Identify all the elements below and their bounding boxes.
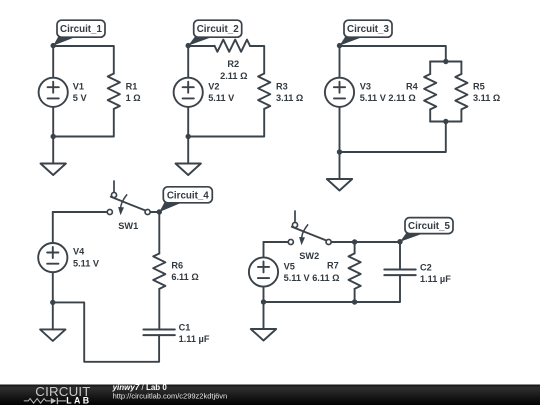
svg-text:5.11 V 2.11 Ω: 5.11 V 2.11 Ω (360, 93, 416, 103)
svg-text:2.11 Ω: 2.11 Ω (220, 71, 247, 81)
svg-text:Circuit_5: Circuit_5 (408, 221, 450, 232)
svg-text:R3: R3 (276, 82, 288, 92)
svg-text:Circuit_3: Circuit_3 (347, 24, 389, 35)
svg-text:http://circuitlab.com/c299z2kd: http://circuitlab.com/c299z2kdtj6vn (113, 391, 228, 400)
svg-text:1 Ω: 1 Ω (126, 93, 141, 103)
svg-text:SW2: SW2 (299, 251, 319, 261)
svg-text:5.11 V 6.11 Ω: 5.11 V 6.11 Ω (284, 273, 340, 283)
svg-text:V3: V3 (360, 82, 371, 92)
svg-text:Circuit_1: Circuit_1 (60, 24, 102, 35)
svg-text:R6: R6 (171, 260, 183, 270)
svg-text:R7: R7 (327, 260, 339, 270)
svg-text:V2: V2 (208, 82, 219, 92)
svg-text:1.11 µF: 1.11 µF (420, 274, 451, 284)
svg-text:3.11 Ω: 3.11 Ω (473, 93, 500, 103)
svg-text:1.11 µF: 1.11 µF (179, 334, 210, 344)
svg-text:R1: R1 (126, 82, 138, 92)
svg-text:V4: V4 (73, 247, 85, 257)
svg-text:SW1: SW1 (118, 221, 138, 231)
svg-text:C1: C1 (179, 323, 191, 333)
svg-text:LAB: LAB (66, 396, 91, 405)
svg-text:R2: R2 (227, 59, 239, 69)
svg-text:V1: V1 (73, 82, 84, 92)
svg-text:Circuit_4: Circuit_4 (167, 190, 209, 201)
svg-text:5.11 V: 5.11 V (208, 93, 235, 103)
svg-text:3.11 Ω: 3.11 Ω (276, 93, 303, 103)
svg-text:R5: R5 (473, 82, 485, 92)
svg-text:6.11 Ω: 6.11 Ω (171, 272, 198, 282)
svg-text:R4: R4 (406, 82, 419, 92)
svg-text:V5: V5 (284, 261, 295, 271)
svg-text:5.11 V: 5.11 V (73, 258, 100, 268)
svg-text:C2: C2 (420, 262, 432, 272)
svg-text:5 V: 5 V (73, 93, 88, 103)
svg-text:Circuit_2: Circuit_2 (197, 24, 239, 35)
